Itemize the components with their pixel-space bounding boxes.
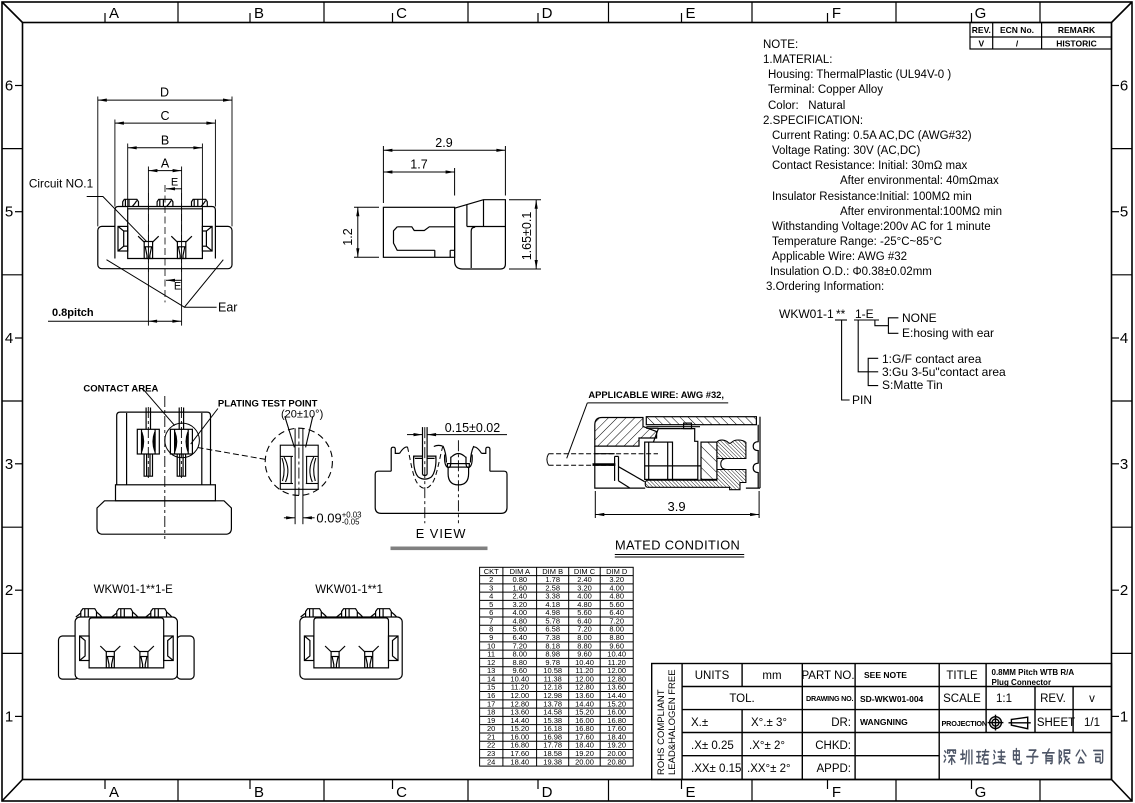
svg-text:Housing: ThermalPlastic (UL94V: Housing: ThermalPlastic (UL94V-0 ) [768,69,951,81]
svg-text:19.38: 19.38 [543,757,562,766]
svg-text:1:G/F contact area: 1:G/F contact area [882,352,982,366]
svg-text:LEAD&HALOGEN FREE: LEAD&HALOGEN FREE [667,669,678,775]
side view: rear body [383,207,454,257]
svg-text:TITLE: TITLE [946,670,978,682]
side view: dimensions 2.9 1.7 1.2 1.65 [354,146,541,269]
svg-text:REMARK: REMARK [1058,25,1096,35]
svg-text:mm: mm [762,670,781,682]
svg-text:20.00: 20.00 [575,757,594,766]
mated condition: terminal retention block hatched [701,442,717,479]
svg-text:3.Ordering Information:: 3.Ordering Information: [766,281,884,293]
svg-text:18.40: 18.40 [510,757,529,766]
leader dashed to detail circle [198,448,267,460]
mated condition: receptacle upper rear arm hatched [717,440,746,459]
bottom view: base block [97,501,231,534]
svg-text:.XX± 0.15: .XX± 0.15 [691,763,741,775]
front view: center lines [148,185,181,302]
svg-text:REV.: REV. [1040,693,1066,705]
svg-text:A: A [161,156,170,170]
svg-text:3.9: 3.9 [668,499,686,514]
svg-text:ECN No.: ECN No. [1000,25,1034,35]
svg-text:Withstanding Voltage:200v AC f: Withstanding Voltage:200v AC for 1 minut… [772,221,991,233]
svg-text:F: F [832,5,841,22]
small view WKW01-1**1: body [300,617,402,679]
svg-text:3: 3 [5,456,13,473]
svg-text:After environmental: 40mΩmax: After environmental: 40mΩmax [840,175,999,187]
revision table [970,23,1112,50]
svg-text:PROJECTION: PROJECTION [942,719,987,728]
svg-text:2: 2 [1120,582,1128,599]
front view: dimension texts [160,86,181,293]
svg-text:SEE NOTE: SEE NOTE [864,670,907,680]
bottom view: terminals [137,408,192,477]
bottom view: center lines [148,396,181,539]
svg-text:REV.: REV. [972,25,991,35]
svg-text:WKW01-1: WKW01-1 [779,307,834,321]
svg-text:D: D [160,86,169,100]
mated condition: receptacle right face [753,417,760,488]
svg-text:TOL.: TOL. [729,693,754,705]
svg-text:Circuit NO.1: Circuit NO.1 [29,177,93,191]
E view: left fork terminal [414,427,436,479]
small view WKW01-1**1: bumps [301,609,397,617]
E view: housing body outline [375,445,507,513]
svg-text:Ear: Ear [218,301,237,315]
svg-text:20.80: 20.80 [607,757,626,766]
svg-text:1: 1 [1120,708,1128,725]
svg-text:UNITS: UNITS [695,670,730,682]
svg-text:A: A [109,784,119,801]
mated condition: plug terminal box [645,423,701,479]
svg-text:E: E [171,177,178,189]
svg-text:ROHS COMPLIANT: ROHS COMPLIANT [656,689,667,775]
E view: dimension 0.15 [407,433,507,436]
title block [652,664,1112,780]
small view WKW01-1**1-E: side slots [80,636,174,661]
mated condition: receptacle bottom wall and lower rear arm hatched [645,470,746,490]
front view: dimension witness lines [98,97,232,326]
svg-text:.X°± 2°: .X°± 2° [749,740,785,752]
mated condition: wire [547,454,549,466]
detail circle contents: terminal section [280,416,318,489]
bottom view: middle block [116,485,216,501]
svg-text:1.65±0.1: 1.65±0.1 [520,212,534,261]
svg-text:1.7: 1.7 [410,158,427,172]
svg-text:0.8MM Pitch WTB R/A: 0.8MM Pitch WTB R/A [992,668,1075,677]
svg-text:A: A [109,5,119,22]
svg-text:**: ** [836,307,846,321]
svg-text:APPD:: APPD: [816,763,851,775]
svg-text:0.8pitch: 0.8pitch [52,307,94,319]
svg-text:1:1: 1:1 [996,693,1012,705]
front view: housing inner face [128,209,203,259]
svg-text:1/1: 1/1 [1084,717,1100,729]
small view WKW01-1**1: side slots [304,636,398,661]
mated condition: rear terminal slot [721,459,746,470]
svg-text:(20±10°): (20±10°) [281,409,323,421]
front view: terminals [138,236,192,258]
svg-text:HISTORIC: HISTORIC [1056,39,1096,49]
small view WKW01-1**1-E: body [75,617,177,679]
svg-text:E: E [685,784,695,801]
svg-text:0.09: 0.09 [316,511,341,526]
svg-text:NOTE:: NOTE: [763,39,798,51]
front view: connector base with ears [98,226,232,268]
svg-text:SHEET: SHEET [1037,717,1075,729]
front view: terminal bumps [123,199,208,206]
svg-text:Applicable Wire: AWG #32: Applicable Wire: AWG #32 [772,251,907,263]
svg-text:6: 6 [5,78,13,95]
svg-text:APPLICABLE WIRE: AWG #32,: APPLICABLE WIRE: AWG #32, [588,389,724,400]
svg-text:G: G [975,784,987,801]
svg-text:G: G [975,5,987,22]
bottom view: top block [117,412,211,485]
svg-text:D: D [542,784,553,801]
svg-text:2.9: 2.9 [435,136,452,150]
svg-text:Contact Resistance: Initial: 3: Contact Resistance: Initial: 30mΩ max [772,160,967,172]
svg-text:SD-WKW01-004: SD-WKW01-004 [860,694,924,704]
svg-text:-0.05: -0.05 [342,518,360,527]
side view: front body [455,200,506,269]
svg-text:Terminal: Copper Alloy: Terminal: Copper Alloy [768,84,883,96]
svg-text:NONE: NONE [902,311,937,325]
svg-text:4: 4 [5,330,13,347]
svg-text:WKW01-1**1: WKW01-1**1 [315,584,383,596]
svg-text:E:hosing with ear: E:hosing with ear [902,326,994,340]
svg-text:1: 1 [5,708,13,725]
E view: hidden valley arcs [408,447,443,488]
notes text block [763,39,1002,293]
svg-text:F: F [832,784,841,801]
dimension 0.09 [284,516,315,519]
svg-text:Insulator Resistance:Initial:: Insulator Resistance:Initial: 100MΩ min [772,191,972,203]
svg-text:Plug Connector: Plug Connector [992,678,1052,687]
svg-text:Insulation O.D.: Φ0.38±0.02mm: Insulation O.D.: Φ0.38±0.02mm [770,266,932,278]
svg-text:Current Rating: 0.5A AC,DC (AW: Current Rating: 0.5A AC,DC (AWG#32) [772,130,972,142]
svg-text:1-E: 1-E [855,307,874,321]
svg-text:MATED CONDITION: MATED CONDITION [615,538,740,553]
svg-text:E: E [685,5,695,22]
svg-text:X.±: X.± [691,717,708,729]
detail circle: slot plate lines [295,428,303,524]
svg-text:DR:: DR: [831,717,851,729]
svg-text:D: D [542,5,553,22]
svg-text:PIN: PIN [852,393,872,407]
svg-text:.XX°± 2°: .XX°± 2° [747,763,791,775]
mated condition: plug housing lower outline [595,446,760,488]
svg-text:PART NO.: PART NO. [801,670,854,682]
svg-text:C: C [396,5,407,22]
svg-text:24: 24 [487,757,495,766]
svg-text:V: V [978,39,984,49]
svg-text:5: 5 [1120,204,1128,221]
svg-text:.X± 0.25: .X± 0.25 [691,740,734,752]
detail circle: plating test point [265,428,332,495]
svg-text:6: 6 [1120,78,1128,95]
svg-text:B: B [254,784,264,801]
small view WKW01-1**1-E: ear wings [59,636,195,679]
svg-text:After environmental:100MΩ min: After environmental:100MΩ min [840,206,1002,218]
E view: right bell terminal [445,454,473,485]
svg-text:WANGNING: WANGNING [860,717,908,727]
svg-text:2.SPECIFICATION:: 2.SPECIFICATION: [763,115,863,127]
circuit dimension table [480,567,634,766]
svg-text:3:Gu 3-5u"contact area: 3:Gu 3-5u"contact area [882,365,1006,379]
svg-text:SCALE: SCALE [943,693,981,705]
svg-text:CONTACT AREA: CONTACT AREA [83,383,158,394]
svg-text:1.2: 1.2 [341,228,355,245]
svg-text:3: 3 [1120,456,1128,473]
E view: center lines [425,427,459,523]
svg-text:E: E [174,281,181,293]
svg-text:1.MATERIAL:: 1.MATERIAL: [763,54,832,66]
svg-text:Temperature Range: -25°C~85°C: Temperature Range: -25°C~85°C [772,236,942,248]
svg-text:C: C [160,109,169,123]
svg-text:S:Matte Tin: S:Matte Tin [882,378,943,392]
small view WKW01-1**1-E: terminals [100,646,154,668]
svg-text:Voltage Rating: 30V (AC,DC): Voltage Rating: 30V (AC,DC) [772,145,920,157]
svg-text:DRAWING NO.: DRAWING NO. [806,694,854,703]
mated condition: 3.9 dimension [595,491,759,518]
svg-text:E VIEW: E VIEW [416,526,467,541]
front view: housing outer [115,207,215,259]
svg-text:0.15±0.02: 0.15±0.02 [445,421,501,435]
bottom view: detail circle on part [165,423,200,458]
front view: dimension lines D C B A E pitch [48,99,232,323]
front view: side latch slots [118,226,212,251]
projection symbol [988,715,1031,731]
svg-text:v: v [1089,693,1095,705]
svg-text:2: 2 [5,582,13,599]
company name [944,749,1103,765]
side view: terminal cavity [394,227,455,257]
mated condition: plug housing hatched block [595,418,657,447]
svg-text:Color: Natural: Color: Natural [768,100,845,112]
small view WKW01-1**1-E: bumps [76,609,172,617]
svg-text:4: 4 [1120,330,1128,347]
ordering information diagram [779,307,1006,407]
svg-text:B: B [161,134,169,148]
svg-text:5: 5 [5,204,13,221]
svg-text:WKW01-1**1-E: WKW01-1**1-E [94,584,174,596]
svg-text:C: C [396,784,407,801]
svg-text:B: B [254,5,264,22]
svg-text:X°.± 3°: X°.± 3° [751,717,787,729]
mated condition: receptacle top wall hatched [646,417,756,425]
small view WKW01-1**1: terminals [325,646,379,668]
svg-text:CHKD:: CHKD: [815,740,851,752]
